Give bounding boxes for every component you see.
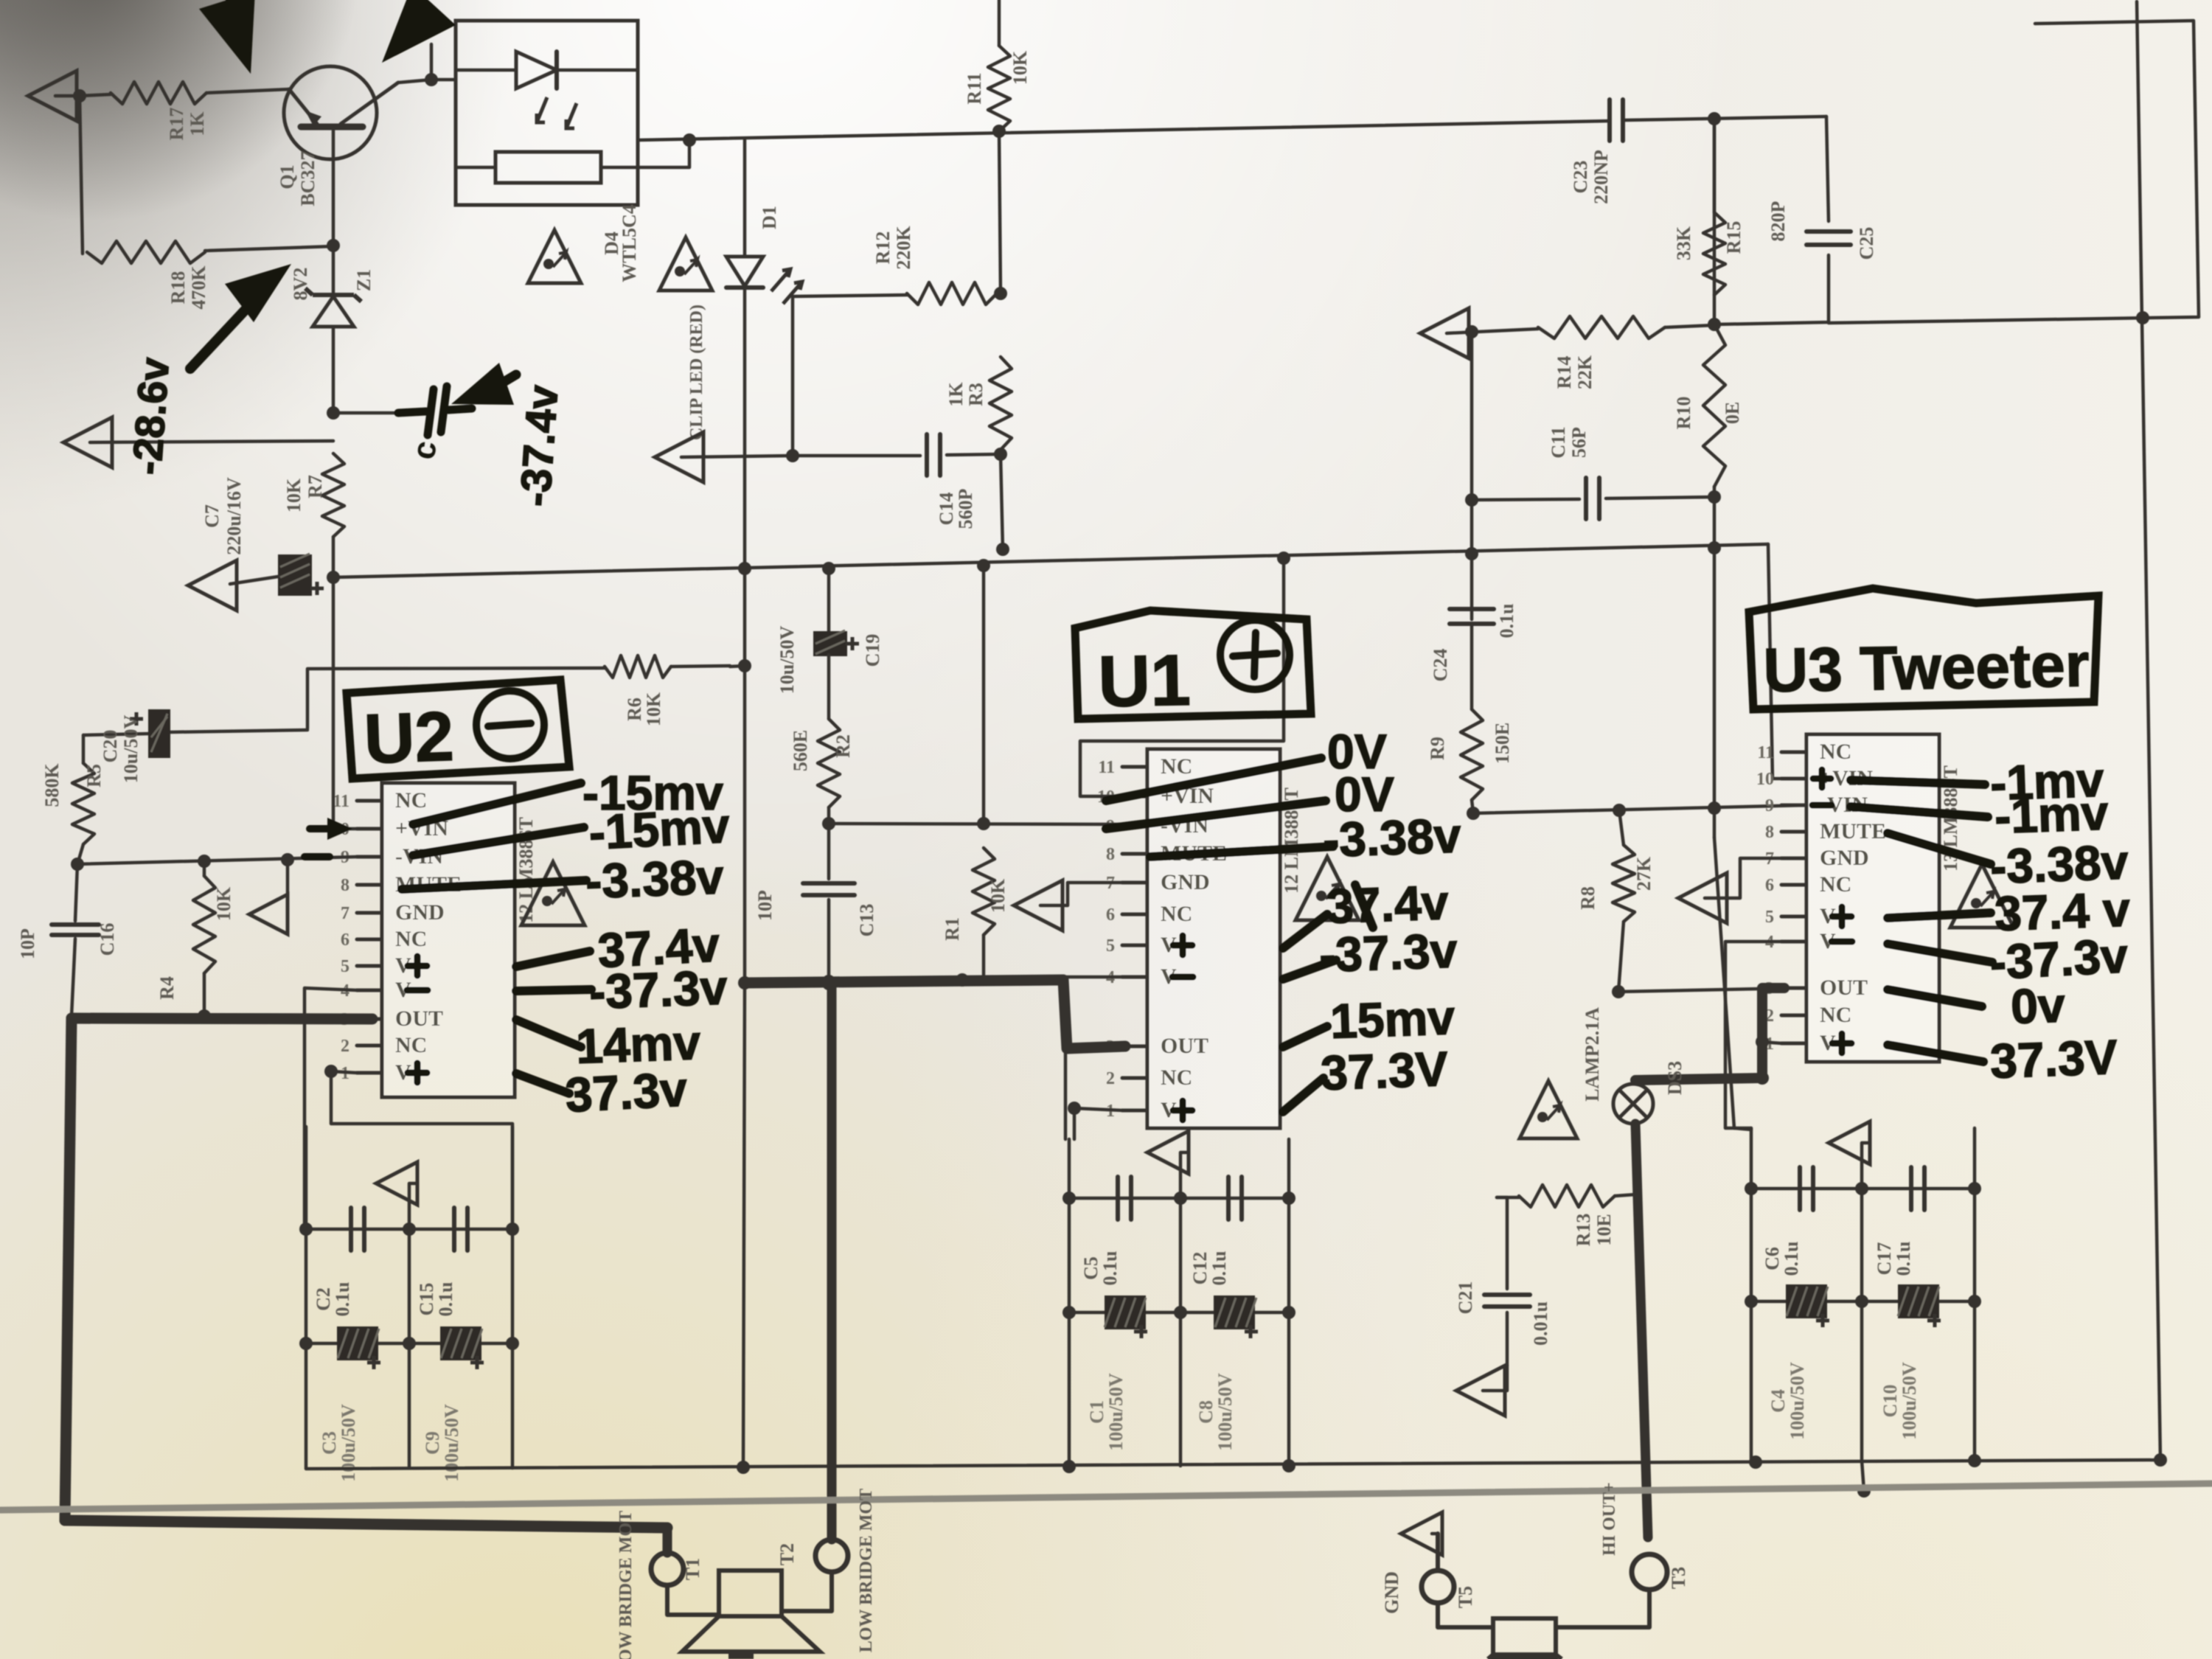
resistor R7 10K bbox=[283, 453, 344, 537]
hand pin line U3-2 bbox=[1888, 833, 1991, 864]
svg-text:-28.6v: -28.6v bbox=[123, 356, 178, 476]
node R6 right on D1 rail bbox=[730, 659, 751, 672]
hand voltage U3 -1mv bbox=[1989, 752, 2105, 810]
node R11 bottom on top rail bbox=[992, 125, 1006, 138]
hand minus at U3 V- bbox=[1832, 939, 1852, 945]
wire U1 OUT thick bbox=[745, 980, 1125, 1048]
node R14 left bbox=[1465, 325, 1478, 338]
node bottom/U3L bbox=[1749, 1455, 1762, 1469]
hand strike on U1 37.4 bbox=[1355, 885, 1373, 928]
capacitor C19 10u/50V bbox=[776, 568, 883, 694]
terminal T5 bbox=[1422, 1571, 1476, 1608]
wire U2 -VIN bbox=[77, 857, 357, 864]
svg-text:C9: C9 bbox=[422, 1431, 443, 1455]
svg-text:5: 5 bbox=[1106, 936, 1115, 956]
svg-text:C6: C6 bbox=[1761, 1247, 1783, 1270]
resistor R2 560E bbox=[790, 655, 854, 807]
hand pin line U3-5 bbox=[1888, 990, 1982, 1006]
ground connector T5 bbox=[1381, 1512, 1442, 1614]
svg-text:560E: 560E bbox=[790, 730, 811, 771]
svg-text:10K: 10K bbox=[643, 692, 664, 726]
svg-text:R12: R12 bbox=[872, 232, 894, 265]
ground connector C21 bbox=[1456, 1366, 1507, 1416]
svg-text:150E: 150E bbox=[1492, 723, 1513, 764]
svg-text:U2: U2 bbox=[363, 698, 455, 779]
node R15/R14/C25 bbox=[1708, 318, 1721, 331]
ground connector U3 GND bbox=[1678, 858, 1781, 923]
svg-text:R1: R1 bbox=[942, 917, 963, 941]
svg-text:R9: R9 bbox=[1427, 737, 1448, 760]
node C11 left bbox=[1465, 493, 1478, 507]
node Q1 collector bbox=[425, 44, 438, 86]
speaker tweeter bbox=[1488, 1618, 1562, 1659]
speaker woofer bbox=[682, 1571, 820, 1659]
svg-text:GND: GND bbox=[1381, 1571, 1402, 1614]
wire U1 V+ bottom bbox=[1068, 1102, 1122, 1139]
hand plus at U3 +VIN bbox=[1813, 770, 1831, 787]
ground connector U1 GND bbox=[1014, 880, 1122, 931]
resistor R10 0E bbox=[1673, 324, 1743, 497]
hand arrow onto opto bbox=[382, 0, 456, 63]
svg-text:8V2: 8V2 bbox=[290, 268, 311, 301]
svg-text:R5: R5 bbox=[83, 764, 105, 787]
capacitor C25 820P bbox=[1767, 201, 1877, 260]
node R4 on out bus bbox=[198, 1009, 211, 1023]
wire rail-A bbox=[333, 544, 1768, 577]
svg-text:10: 10 bbox=[1756, 770, 1774, 789]
node R3 bottom / C14 bbox=[994, 448, 1007, 461]
optocoupler D4 WTL5C4 box bbox=[456, 21, 640, 282]
hand box U1 bbox=[1075, 611, 1311, 722]
wire U2 V- bbox=[305, 988, 357, 1229]
svg-text:100u/50V: 100u/50V bbox=[1214, 1373, 1236, 1451]
hand voltage U2 37.3v bbox=[564, 1061, 689, 1122]
svg-text:NC: NC bbox=[395, 927, 427, 951]
svg-text:-37.4v: -37.4v bbox=[511, 383, 567, 508]
bypass capacitors C6 C17 C4 C10 (U3) bbox=[1745, 1121, 1981, 1461]
wire top right loop bbox=[1829, 21, 2199, 323]
hand pin line U2-6 bbox=[516, 1074, 569, 1093]
resistor R14 22K bbox=[1538, 316, 1714, 389]
warning triangle near opto 1 bbox=[528, 230, 581, 283]
hand arrow to -37.4v bbox=[451, 363, 516, 405]
svg-text:9: 9 bbox=[1765, 796, 1774, 815]
svg-text:NC: NC bbox=[1820, 740, 1851, 764]
hand pin line U2-4 bbox=[516, 990, 591, 991]
svg-text:11: 11 bbox=[1098, 758, 1115, 777]
svg-text:10K: 10K bbox=[283, 478, 305, 512]
svg-text:NC: NC bbox=[1161, 902, 1192, 926]
svg-text:820P: 820P bbox=[1767, 201, 1789, 241]
hand voltage U1 15mv bbox=[1329, 990, 1456, 1048]
svg-text:37.3v: 37.3v bbox=[564, 1061, 689, 1122]
hand pin line U3-0 bbox=[1851, 780, 1985, 785]
svg-text:GND: GND bbox=[395, 900, 445, 925]
svg-text:NC: NC bbox=[395, 1033, 427, 1057]
svg-text:LOW BRIDGE MOT: LOW BRIDGE MOT bbox=[857, 1489, 876, 1652]
hand voltage U1 -3.38v bbox=[1322, 807, 1462, 866]
hand minus at U2 -VIN bbox=[305, 853, 330, 860]
thick bus left vertical bbox=[65, 1018, 72, 1520]
svg-text:1K: 1K bbox=[187, 111, 208, 136]
connector triangle at R14 bbox=[1420, 308, 1538, 358]
label CLIP LED (RED) bbox=[687, 305, 706, 440]
svg-text:Z1: Z1 bbox=[353, 269, 375, 291]
svg-text:C20: C20 bbox=[100, 730, 121, 763]
wire U1 V- bbox=[1065, 977, 1122, 1139]
capacitor C11 56P bbox=[1472, 426, 1714, 519]
svg-text:C1: C1 bbox=[1086, 1400, 1107, 1424]
node R4 top bbox=[198, 855, 211, 868]
svg-text:C8: C8 bbox=[1195, 1400, 1217, 1424]
bypass capacitors C5 C12 C1 C8 (U1) bbox=[1062, 1131, 1295, 1466]
hand pin line U1-2 bbox=[1150, 846, 1333, 857]
hand plus at U1 V+5 bbox=[1173, 936, 1192, 955]
resistor R17 bbox=[80, 82, 208, 140]
capacitor C16 10P bbox=[17, 864, 118, 1016]
node -VIN / R1 bbox=[977, 817, 990, 830]
svg-text:GND: GND bbox=[1161, 870, 1210, 894]
svg-text:27K: 27K bbox=[1633, 856, 1655, 891]
node rail-A / C19 drop bbox=[822, 562, 835, 575]
hand pin line U1-5 bbox=[1283, 1026, 1327, 1047]
hand plus at U2 V+1 bbox=[408, 1063, 427, 1082]
hand voltage U3 0v bbox=[2010, 977, 2066, 1034]
hand note -28.6v bbox=[123, 356, 178, 476]
hand pin line U2-2 bbox=[402, 880, 586, 889]
resistor R11 10K bbox=[964, 0, 1031, 131]
terminal T1 bbox=[651, 1553, 703, 1585]
svg-text:C23: C23 bbox=[1570, 161, 1591, 194]
node Z1 / R7 / test point bbox=[327, 406, 402, 420]
svg-text:10K: 10K bbox=[1009, 50, 1031, 85]
hand voltage U2 14mv bbox=[575, 1015, 702, 1074]
svg-text:R7: R7 bbox=[305, 475, 326, 498]
capacitor C7 220u/16V bbox=[201, 477, 324, 596]
svg-text:8: 8 bbox=[341, 876, 349, 895]
svg-text:10u/50V: 10u/50V bbox=[120, 715, 142, 784]
wire U3 V+ bottom bbox=[1756, 1035, 1781, 1048]
svg-text:C24: C24 bbox=[1430, 649, 1451, 682]
wire C11 node down bbox=[1470, 500, 1474, 619]
hand voltage U1 0V bbox=[1327, 724, 1387, 779]
wire T2 drop thick bbox=[827, 981, 837, 1540]
svg-text:220u/16V: 220u/16V bbox=[223, 477, 245, 555]
svg-text:R17: R17 bbox=[166, 108, 187, 141]
ground connector at C14 bbox=[655, 432, 793, 482]
wire opto to rail-A bbox=[638, 133, 696, 167]
wire R2 to -VIN wire bbox=[827, 807, 831, 824]
transistor Q1 BC327 bbox=[276, 66, 398, 245]
svg-text:U3 Tweeter: U3 Tweeter bbox=[1763, 630, 2090, 705]
node C7 / rail-A bbox=[327, 571, 340, 584]
wire C25 loop bbox=[1714, 116, 1829, 324]
svg-text:C14: C14 bbox=[936, 493, 957, 526]
node outer rail / top loop bbox=[2136, 311, 2149, 324]
svg-text:NC: NC bbox=[1161, 1065, 1192, 1090]
wire T3 to speaker bbox=[1556, 1590, 1649, 1627]
svg-text:100u/50V: 100u/50V bbox=[441, 1404, 462, 1482]
wire R17 to Q1 bbox=[206, 89, 289, 93]
hand arrow at U2 +VIN bbox=[310, 818, 352, 840]
wire U2 V+ bottom bbox=[324, 1065, 512, 1229]
svg-text:DS3: DS3 bbox=[1664, 1061, 1686, 1095]
svg-text:NC: NC bbox=[1161, 754, 1192, 779]
svg-text:C13: C13 bbox=[856, 904, 877, 937]
svg-text:T1: T1 bbox=[682, 1558, 703, 1580]
svg-text:11: 11 bbox=[333, 792, 349, 811]
svg-text:8: 8 bbox=[1765, 823, 1774, 842]
wire R1 to bus bbox=[982, 935, 986, 981]
svg-text:220NP: 220NP bbox=[1590, 150, 1612, 204]
svg-text:10u/50V: 10u/50V bbox=[776, 626, 798, 695]
wire rail-A corner down to U3 bbox=[1768, 544, 1806, 779]
hand voltage U2 -3.38v bbox=[585, 849, 725, 908]
svg-text:C5: C5 bbox=[1080, 1256, 1102, 1280]
svg-text:R3: R3 bbox=[965, 383, 987, 406]
label HI OUT+ bbox=[1600, 1482, 1619, 1556]
svg-text:C10: C10 bbox=[1879, 1385, 1901, 1418]
svg-text:NC: NC bbox=[1820, 1003, 1851, 1027]
svg-text:OUT: OUT bbox=[1820, 975, 1868, 1000]
svg-text:NC: NC bbox=[1820, 872, 1851, 897]
node R2 bottom bbox=[822, 817, 835, 830]
svg-text:CLIP LED (RED): CLIP LED (RED) bbox=[687, 305, 706, 440]
node C14 left bbox=[786, 449, 799, 462]
hand voltage U3 -3.38v bbox=[1989, 834, 2129, 893]
ground connector U2 GND bbox=[249, 853, 294, 934]
wire R12 loop left bbox=[793, 295, 907, 456]
svg-text:R4: R4 bbox=[156, 976, 178, 1000]
capacitor C24 0.1u bbox=[1430, 604, 1517, 682]
op-amp U2 LM3886 bbox=[332, 783, 537, 1097]
svg-text:C12: C12 bbox=[1189, 1252, 1211, 1285]
svg-text:0.1u: 0.1u bbox=[435, 1282, 456, 1317]
svg-text:6: 6 bbox=[1106, 905, 1115, 925]
hand voltage U3 37.3V bbox=[1989, 1029, 2118, 1088]
wire U3 OUT thick bbox=[1635, 988, 1784, 1080]
wire top rail bbox=[638, 116, 1826, 140]
hand plus at U1 V+1 bbox=[1173, 1101, 1192, 1120]
svg-text:-3.38v: -3.38v bbox=[1322, 807, 1462, 866]
node rail-A / right rail bbox=[1708, 541, 1721, 554]
wire T5 to speaker bbox=[1438, 1603, 1493, 1627]
resistor R4 10K bbox=[156, 861, 234, 1016]
node rail-A / C24 line bbox=[1465, 547, 1478, 560]
hand pin line U3-3 bbox=[1888, 913, 1991, 918]
svg-text:R8: R8 bbox=[1577, 886, 1599, 910]
hand box U2 bbox=[347, 680, 569, 779]
wire U3 mid to grey line bbox=[1857, 1461, 1871, 1498]
svg-text:R15: R15 bbox=[1723, 221, 1745, 254]
capacitor C13 10P bbox=[754, 824, 877, 987]
node out bus / C13 bbox=[822, 975, 835, 988]
svg-text:100u/50V: 100u/50V bbox=[1105, 1373, 1127, 1451]
svg-text:2: 2 bbox=[1106, 1069, 1115, 1088]
wire U2 OUT thick bbox=[72, 1018, 372, 1019]
zener Z1 8V2 bbox=[290, 246, 375, 413]
capacitor C21 0.01u bbox=[1455, 1197, 1551, 1366]
svg-text:MUTE: MUTE bbox=[1820, 819, 1886, 844]
wire D1 rail bbox=[743, 288, 745, 1467]
hand plus at U3 V+5 bbox=[1832, 907, 1851, 926]
node out bus / D1 rail bbox=[738, 976, 751, 990]
svg-text:10P: 10P bbox=[754, 890, 776, 921]
svg-text:R14: R14 bbox=[1554, 356, 1575, 389]
svg-text:-37.3v: -37.3v bbox=[1318, 922, 1458, 981]
node bottom/D1 bbox=[737, 1461, 750, 1474]
bypass capacitors C2 C15 C3 C9 (U2) bbox=[299, 1127, 519, 1482]
resistor R8 27K bbox=[1577, 810, 1655, 922]
node rail-A / U1 drop bbox=[1277, 552, 1290, 565]
svg-text:0.1u: 0.1u bbox=[1099, 1251, 1121, 1286]
svg-text:33K: 33K bbox=[1673, 226, 1694, 260]
resistor R3 1K bbox=[945, 357, 1012, 450]
svg-text:T3: T3 bbox=[1668, 1567, 1689, 1589]
svg-text:WTL5C4: WTL5C4 bbox=[619, 204, 640, 282]
hand arrow to -28.6v bbox=[190, 264, 291, 369]
node R9 bottom bbox=[1467, 807, 1480, 820]
svg-text:0E: 0E bbox=[1722, 402, 1743, 424]
svg-text:T2: T2 bbox=[776, 1543, 798, 1565]
lamp DS3 bbox=[1582, 1007, 1686, 1124]
wire R3 node down to rail-A bbox=[996, 454, 1009, 556]
wire outer right rail bbox=[2137, 1, 2160, 1460]
svg-text:OUT: OUT bbox=[1161, 1034, 1208, 1058]
resistor R15 33K bbox=[1673, 120, 1745, 295]
svg-text:Q1: Q1 bbox=[276, 164, 298, 189]
wire U2 +VIN bbox=[333, 577, 357, 829]
node U3 out corner bbox=[1756, 1071, 1769, 1085]
svg-text:0.1u: 0.1u bbox=[1781, 1242, 1802, 1276]
warning triangle lamp bbox=[1520, 1081, 1577, 1138]
led D1 bbox=[726, 140, 802, 304]
svg-text:37.3V: 37.3V bbox=[1989, 1029, 2118, 1088]
svg-text:C21: C21 bbox=[1455, 1281, 1476, 1315]
svg-text:R11: R11 bbox=[964, 72, 985, 104]
svg-text:C4: C4 bbox=[1767, 1389, 1789, 1413]
node R10 bottom / C11 bbox=[1708, 490, 1721, 504]
svg-text:GND: GND bbox=[1820, 846, 1869, 870]
svg-text:R10: R10 bbox=[1673, 397, 1694, 430]
svg-text:37.3V: 37.3V bbox=[1320, 1041, 1449, 1100]
wire R7 to C7 bbox=[332, 537, 335, 577]
hand voltage U2 -15mv bbox=[582, 765, 723, 820]
connector triangle mid-left bbox=[63, 417, 333, 467]
node rail-A / R1 drop bbox=[977, 559, 990, 572]
node bottom/U3R bbox=[1968, 1454, 1981, 1467]
svg-text:LOW BRIDGE MOT: LOW BRIDGE MOT bbox=[616, 1511, 636, 1659]
hand pin line U2-1 bbox=[413, 827, 584, 855]
svg-text:6: 6 bbox=[1765, 876, 1774, 895]
wire -VIN long bbox=[1473, 805, 1806, 813]
svg-text:6: 6 bbox=[341, 931, 349, 950]
wire U1 +VIN drop bbox=[1080, 558, 1284, 796]
wire U3 V- bbox=[1725, 942, 1781, 1128]
wire T2 to speaker bbox=[782, 1572, 832, 1611]
svg-text:-1mv: -1mv bbox=[1994, 785, 2110, 844]
hand voltage U2 37.4v bbox=[597, 917, 721, 978]
svg-text:C17: C17 bbox=[1874, 1242, 1895, 1276]
node C13 bottom on bus bbox=[822, 977, 835, 990]
hand capacitor doodle bbox=[398, 386, 472, 462]
svg-text:11: 11 bbox=[1757, 743, 1774, 762]
svg-text:100u/50V: 100u/50V bbox=[1787, 1362, 1808, 1440]
wire thick bottom bus bbox=[65, 1520, 667, 1528]
hand plus at U3 V+1 bbox=[1832, 1034, 1851, 1053]
capacitor C23 220NP bbox=[1570, 100, 1623, 204]
warning triangle near opto 2 bbox=[659, 237, 712, 291]
svg-text:10K: 10K bbox=[987, 878, 1009, 913]
hand voltage U1 37.3V bbox=[1320, 1041, 1449, 1100]
svg-text:D1: D1 bbox=[759, 206, 780, 229]
svg-text:BC327: BC327 bbox=[297, 150, 319, 206]
svg-text:470K: 470K bbox=[188, 265, 209, 310]
wire T1 drop bbox=[663, 1528, 672, 1553]
wire grey scan line bbox=[0, 1484, 2212, 1510]
svg-text:100u/50V: 100u/50V bbox=[1899, 1362, 1920, 1440]
node -VIN wire / right rail bbox=[1708, 801, 1721, 815]
hand voltage U3 -1mv bbox=[1994, 785, 2110, 844]
svg-text:C19: C19 bbox=[862, 634, 883, 667]
svg-text:R6: R6 bbox=[624, 698, 645, 721]
svg-text:0.1u: 0.1u bbox=[332, 1282, 353, 1317]
svg-text:C2: C2 bbox=[313, 1287, 334, 1311]
wire C24 down bbox=[1470, 625, 1474, 709]
svg-text:8: 8 bbox=[1106, 845, 1115, 864]
node R12 right bbox=[994, 287, 1007, 300]
wire rail-A drop to R1 bbox=[982, 566, 986, 824]
resistor R18 bbox=[80, 96, 333, 310]
op-amp U1 LM3886 bbox=[1097, 749, 1302, 1128]
hand plus at U2 V+5 bbox=[408, 956, 427, 975]
warning triangle U2 bbox=[521, 862, 585, 925]
svg-text:C25: C25 bbox=[1856, 227, 1877, 260]
svg-text:1K: 1K bbox=[945, 382, 967, 407]
hand pin line U3-1 bbox=[1851, 807, 1988, 817]
node D1 top on rail-A bbox=[738, 562, 751, 575]
resistor R1 10K bbox=[942, 848, 1009, 941]
hand pin line U2-0 bbox=[413, 783, 581, 824]
svg-text:0v: 0v bbox=[2010, 977, 2066, 1034]
wire right rail x2325 bbox=[1714, 119, 1751, 1130]
svg-text:0.1u: 0.1u bbox=[1208, 1251, 1230, 1286]
hand pin line U1-3 bbox=[1283, 914, 1327, 948]
svg-text:56P: 56P bbox=[1568, 427, 1590, 458]
svg-text:OUT: OUT bbox=[395, 1006, 443, 1031]
label LOW BRIDGE MOT left bbox=[616, 1511, 636, 1659]
wire R14-C11 vertical bbox=[1470, 332, 1474, 500]
svg-text:HI OUT+: HI OUT+ bbox=[1600, 1482, 1619, 1556]
svg-text:0.1u: 0.1u bbox=[1893, 1242, 1914, 1276]
svg-text:580K: 580K bbox=[41, 763, 63, 807]
node out bus / R1 bbox=[956, 973, 969, 987]
node bottom/U1R bbox=[1282, 1459, 1295, 1472]
capacitor C14 560P bbox=[793, 434, 1001, 529]
hand pin line U2-5 bbox=[516, 1020, 581, 1047]
svg-text:T5: T5 bbox=[1455, 1586, 1476, 1608]
svg-text:5: 5 bbox=[341, 957, 349, 976]
wire node to optocoupler box bbox=[431, 78, 456, 82]
hand pin line U1-4 bbox=[1283, 960, 1336, 979]
label LOW BRIDGE MOT right bbox=[857, 1489, 876, 1652]
node bottom/U1L bbox=[1062, 1460, 1076, 1473]
capacitor C20 10u/50V bbox=[83, 709, 307, 783]
svg-text:15mv: 15mv bbox=[1329, 990, 1456, 1048]
resistor R5 580K bbox=[41, 735, 105, 864]
hand minus at U3 -VIN bbox=[1812, 802, 1832, 809]
wire T1 to speaker bbox=[667, 1585, 719, 1615]
